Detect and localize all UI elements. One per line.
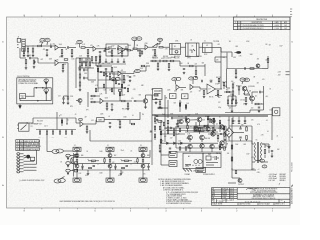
resistor R5 [81,47,85,49]
option box note text [18,78,38,85]
transistor Q28 [141,164,145,168]
ground [61,55,64,57]
wire [89,65,91,68]
wire [271,153,273,156]
wire [85,65,87,68]
driver text box upper [194,126,204,131]
wire [215,95,217,97]
label C16 .022 [163,58,169,60]
wire [224,91,227,93]
wire [238,121,240,123]
resistor R125 [39,131,40,134]
resistor R7 [105,48,109,50]
wire [150,60,152,62]
wire [142,151,144,153]
capacitor C22 [245,67,246,69]
resistor R37 [127,103,129,107]
jack J1 pins [17,45,23,48]
resistor R78 [204,125,208,127]
wire [149,150,151,158]
wire [154,137,156,140]
wire [95,120,97,124]
capacitor C25 [109,123,111,124]
switch SW1a [152,43,158,47]
wire y170 [232,169,252,171]
driver text box lower [196,167,206,172]
resistor R87 [235,170,237,173]
extra grid wires C3 [160,118,225,143]
revision table [234,17,291,30]
capacitor C50 [218,94,219,96]
resistor R111 [223,82,225,85]
wire [244,121,246,123]
wire [204,64,206,76]
tube bottom connector box V1 [73,178,81,182]
wire [87,58,89,80]
resistor R63 [79,119,82,121]
resistor R25 [79,82,81,86]
transistor Q1 [256,64,260,68]
wire [26,95,34,97]
resistor R65 [131,123,134,125]
wire [59,62,68,64]
wire [20,57,26,59]
wire [19,99,21,101]
wire [112,73,118,75]
wire [50,44,52,46]
ground [168,68,171,70]
resistor R101 [209,119,211,122]
resistor R3 [61,50,63,54]
capacitor C8 [84,61,85,63]
wire [145,103,147,106]
resistor R19 [33,60,35,64]
wire [232,121,234,123]
wire [175,151,222,153]
wire [163,46,170,48]
wire [221,51,232,53]
zone tick marks top edge [24,16,272,17]
wire [119,48,128,50]
output bus center [72,163,150,165]
enclosure edge [215,53,227,69]
wire [76,122,80,124]
extra parts cluster B2 [95,68,128,96]
labels U7 area [209,77,233,99]
label SEND [59,57,64,59]
wire [235,96,237,100]
capacitor C37 [104,51,107,52]
line out return wire [90,130,152,141]
connector P12 (filled) [235,51,242,54]
resistor R22 [79,59,81,63]
wire [164,95,166,112]
C4 hanger gnds [232,123,246,125]
wire [105,71,107,73]
wire [212,132,214,135]
wire [175,81,177,85]
drawing border frame [7,17,291,208]
resistor R81 [159,145,161,149]
resistor R89 [127,50,130,51]
wire [223,86,225,89]
resistor R20 [62,65,64,69]
wire [109,48,116,50]
resistor R79 [212,128,214,132]
side cap right 2 [147,164,149,170]
diode D4 [181,142,182,144]
resistor R84 [246,136,248,140]
output row extra labels [74,145,142,166]
wire [20,100,51,102]
tp label [86,109,127,112]
wire [185,142,218,144]
transistor Q16 [219,144,223,148]
wire [249,110,251,113]
wire [164,140,166,142]
preamp out jack J7 [17,122,29,131]
reverb connector box [153,89,163,100]
wire [216,88,223,90]
ground [123,81,126,83]
ground [119,126,122,128]
wire [79,70,81,74]
wire [246,140,248,142]
capacitor C31 [172,117,173,119]
resistor R47 [195,71,197,75]
send return wires [67,99,69,102]
resistor R24 [79,74,81,78]
jack box right edge [273,108,280,116]
label +16V [251,169,255,171]
tube bubble V4 pair [172,77,181,81]
capacitor C2 [68,46,69,48]
capacitor C18 [183,69,185,70]
capacitor C41 [111,61,113,64]
resistor R18 [25,60,27,64]
tube bubble V1B [45,38,50,42]
boxed label MAIN [97,118,105,122]
tube top connector box V3 [139,147,147,151]
resistor R91 [81,62,82,65]
wire [79,63,81,67]
resistor R128 [59,131,60,134]
wire [180,65,188,67]
arrow mark input [34,61,36,62]
wire [126,73,134,75]
wire [259,103,264,105]
transistor Q17 [238,179,242,183]
sheet id sideways upper right margin [292,161,294,172]
wire [217,139,219,142]
wire [85,47,93,49]
wire [119,93,121,101]
ground hatch under AC box [183,169,199,173]
capacitor C42 [117,61,119,64]
bubble J2 [260,159,265,162]
svg-text:0057816000 REV B: 0057816000 REV B [292,185,294,204]
wire [244,91,246,95]
speaker jack J5 [26,155,34,161]
op-amp U6A [176,85,179,90]
wire [152,114,272,116]
wire [240,126,242,128]
wire [57,117,76,119]
wire [232,88,234,91]
wire [145,95,147,99]
wire [217,95,219,97]
capacitor C24 [260,91,261,93]
resistor R44 [157,63,159,67]
resistor R110 [218,78,220,81]
wire [142,168,144,178]
power grid boost ties [166,122,216,131]
wire [24,157,27,158]
wire [133,41,136,49]
resistor R27 [95,57,97,61]
connector triangle FS1 [45,82,48,85]
input chain extras [23,46,24,54]
wire [76,57,90,59]
wire [173,117,178,119]
wire [227,96,229,100]
resistor R57 [232,91,234,95]
output row labels [81,155,150,177]
wire [76,151,78,153]
side resistor left 1 [104,158,105,164]
label 120VAC [185,173,191,176]
resistor R74 [167,120,169,123]
wire [29,122,33,124]
ground [99,55,102,57]
wire [56,112,58,130]
capacitor C21 [155,99,157,100]
wire [101,65,106,67]
wire [179,61,181,66]
wire [133,70,136,72]
resistor R87a [231,157,233,161]
wire [45,85,47,88]
wire [247,89,251,96]
wire [151,95,153,112]
ground [87,173,90,175]
resistor R12 [159,46,163,48]
wire [85,77,88,79]
op-amp U7 power stage driver [207,84,216,94]
side resistor left 2 [137,158,138,164]
wire [140,70,146,72]
wire [200,65,205,67]
resistor R6 [87,50,89,54]
capacitor C9 [84,69,85,71]
ground [159,150,162,152]
input connector J1 [17,38,25,51]
label R39 220K [152,58,158,60]
wire [167,112,169,118]
resistor R130 [67,96,69,99]
inter-column resistor 2 [121,160,132,161]
wire [125,46,127,50]
capacitor C36 [50,46,51,49]
resistor R105 [160,131,162,135]
resistor R80 [217,135,219,138]
connector bubble P5 [44,79,49,82]
rail labels [227,129,230,155]
wire [250,109,264,111]
resistor R30 [111,68,113,72]
opto U5 [186,43,200,57]
wire [238,117,240,121]
summing box A1 [170,94,177,99]
wire [252,169,256,171]
legend table [16,140,42,151]
wire [121,73,126,75]
transistor Q18 [179,119,183,123]
op-amp U3B [118,71,121,76]
ground [177,125,180,127]
ground [127,108,130,110]
wire [125,100,132,102]
wire [167,60,170,62]
capacitor C47 [244,120,246,123]
resistor R127 [52,131,53,134]
wire [252,143,254,145]
right column labels B3 [218,97,221,109]
wire [25,64,27,67]
wire [146,94,153,96]
wire [154,115,156,119]
ground [23,54,26,56]
wire [228,182,236,184]
zone letters left edge [2,42,4,187]
ground [120,173,123,175]
wire [24,169,37,171]
mid-left bus labels [39,137,67,139]
output drop 2 [120,170,122,173]
wire [156,44,158,47]
wire [231,103,233,106]
capacitor C23 [258,107,260,108]
transistor Q4 [250,96,255,101]
wire [33,117,57,119]
wire [145,66,147,71]
AC box inner dots [187,165,200,166]
diode D2 [167,142,168,144]
wire [164,112,166,140]
mid-left bus y129.5 [36,129,76,131]
resistor R96 [235,100,236,103]
wire [38,62,55,64]
wire [95,95,100,97]
footswitch lower connector [19,104,22,109]
tube bottom connector box V3 [139,178,147,182]
wire [201,148,203,152]
wire [189,140,191,142]
transistor Q9 [185,118,190,123]
AC input box [183,153,203,168]
zone numbers top [24,15,274,17]
wire [76,168,78,178]
wire [268,144,270,147]
wire [129,120,131,124]
resistor R49 [217,91,219,95]
resistor R121 [167,127,169,130]
wire [211,149,213,152]
send return wires2 [64,96,69,102]
wire [123,80,125,82]
side resistor left 0 [71,158,72,164]
wire [251,162,253,170]
resistor R62 [86,126,88,130]
wire [58,47,66,49]
wire [25,45,37,47]
resistor R8 [111,50,113,54]
op-amp U3A [55,60,59,65]
resistor R104 [185,147,187,150]
resistor R103 [224,147,226,150]
tube bubble V2A [132,37,137,41]
transistor Q15 [210,144,214,148]
label R40 47K [174,58,179,60]
capacitor C44 [150,131,152,132]
resistor R55 [267,59,269,63]
capacitor C3 [99,52,101,53]
wire [256,160,260,162]
relay K1 [170,44,181,55]
transistor Q20 [220,125,224,129]
capacitor C32 [169,148,171,149]
wire [199,87,201,89]
resistor R50 [154,94,158,96]
resistor R38 [118,90,121,92]
ground [62,70,65,72]
tube bubble V2B [137,37,142,41]
supply note block [269,173,287,182]
wire [228,122,230,128]
ground [144,106,147,108]
resistor R52 [158,107,162,109]
resistor R86 [231,145,233,149]
wire [218,82,220,84]
transistor Q32 [206,127,210,131]
tube bubble V3B [244,78,249,82]
wire [232,95,234,98]
wire [261,91,264,93]
footswitch option box [17,78,53,104]
capacitor C7 [30,57,31,59]
wire [106,65,112,67]
wire [91,60,93,63]
right margin ruler ticks [290,9,292,17]
transistor Q11 [188,135,193,140]
resistor R106 [160,139,162,143]
label OUTPUT [238,184,244,186]
wire [220,48,222,57]
diode D9 [268,147,270,148]
capacitor C20 [210,81,212,82]
ground [183,72,186,74]
transistor Q26 [75,164,79,168]
ground [27,54,30,56]
transistor Q24 [108,154,112,158]
wire [156,116,268,118]
resistor R98 [154,126,155,129]
tube bubble V1A [40,38,45,42]
op-amp U6B [190,84,193,89]
wire [83,123,90,125]
power grid boost labels [170,126,205,136]
zone tick marks bottom edge [24,208,272,209]
